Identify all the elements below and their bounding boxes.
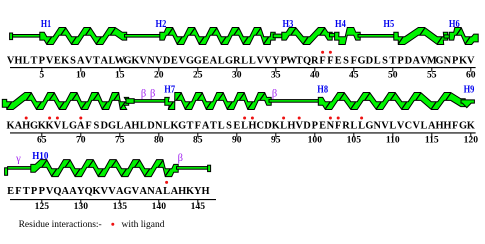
helix label H7: [164, 84, 175, 95]
svg-text:95: 95: [271, 135, 281, 146]
svg-text:50: 50: [388, 69, 398, 80]
ligand dot L106: [360, 117, 363, 120]
helix label H3: [283, 19, 294, 30]
sequence row 3: [7, 186, 210, 197]
svg-text:β: β: [150, 89, 155, 100]
ribbon stub after H6: [126, 99, 134, 104]
helix H8: [318, 93, 465, 110]
svg-text:80: 80: [154, 135, 164, 146]
ligand dot V67: [56, 117, 59, 120]
helix label H10: [32, 151, 48, 162]
svg-text:60: 60: [466, 69, 476, 80]
svg-text:120: 120: [464, 135, 479, 146]
coil residues 77-81: [134, 100, 167, 103]
legend with-ligand text: [122, 220, 165, 230]
svg-text:15: 15: [115, 69, 125, 80]
coil residues 144-146: [177, 167, 209, 170]
ribbon stub after H5: [444, 35, 452, 38]
svg-text:β: β: [141, 89, 146, 100]
helix label H6: [449, 19, 460, 30]
svg-text:135: 135: [113, 201, 128, 212]
ligand dot K66: [48, 117, 51, 120]
svg-text:75: 75: [115, 135, 125, 146]
svg-text:20: 20: [154, 69, 164, 80]
ruler row 2: [10, 133, 478, 146]
coil residues 94-101: [269, 100, 321, 103]
ribbon stub between H3 and H4: [330, 33, 337, 36]
helix H2: [160, 28, 275, 45]
ligand dot F41: [321, 51, 324, 54]
svg-text:145: 145: [191, 201, 206, 212]
svg-text:H8: H8: [317, 84, 328, 95]
svg-text:85: 85: [193, 135, 203, 146]
beta turn symbol at A143: [178, 153, 183, 164]
ligand dot L141: [165, 181, 168, 184]
svg-text:35: 35: [271, 69, 281, 80]
helix label H5: [383, 19, 394, 30]
ribbon stub after H2: [273, 34, 284, 38]
helix H10: [31, 160, 178, 177]
svg-text:55: 55: [427, 69, 437, 80]
beta turn symbol at D79: [150, 89, 155, 100]
svg-text:Residue interactions:-: Residue interactions:-: [19, 220, 102, 230]
sequence row 2: [7, 121, 475, 132]
svg-text:40: 40: [310, 69, 320, 80]
legend text: [19, 220, 102, 230]
ligand dot L96: [282, 117, 285, 120]
svg-text:H10: H10: [32, 151, 48, 162]
svg-text:γ: γ: [15, 153, 21, 164]
svg-text:70: 70: [76, 135, 86, 146]
svg-text:125: 125: [35, 201, 50, 212]
helix H1: [40, 28, 127, 45]
svg-text:EFTPPVQAAYQKVVAGVANALAHKYH: EFTPPVQAAYQKVVAGVANALAHKYH: [7, 186, 210, 197]
coil residues 15-20: [125, 35, 163, 38]
svg-text:25: 25: [193, 69, 203, 80]
helix label H1: [41, 19, 51, 30]
svg-text:β: β: [272, 89, 277, 100]
svg-text:65: 65: [37, 135, 47, 146]
svg-text:110: 110: [386, 135, 400, 146]
svg-text:45: 45: [349, 69, 359, 80]
helix label H9: [464, 84, 475, 95]
ligand dot H63: [25, 117, 28, 120]
helix H6 start (row 1 end): [449, 28, 478, 45]
svg-text:10: 10: [76, 69, 86, 80]
svg-text:H2: H2: [156, 19, 167, 30]
svg-text:H9: H9: [464, 84, 475, 95]
svg-text:KAHGKKVLGAFSDGLAHLDNLKGTFATLSE: KAHGKKVLGAFSDGLAHLDNLKGTFATLSELHCDKLHVDP…: [7, 121, 475, 132]
svg-text:H7: H7: [164, 84, 175, 95]
coil residues 1-5: [13, 35, 43, 38]
helix label H8: [317, 84, 328, 95]
helix H6 continuation (row 2): [2, 93, 128, 110]
svg-text:5: 5: [39, 69, 44, 80]
helix H7: [165, 93, 271, 110]
svg-text:β: β: [178, 153, 183, 164]
helix H8 end wedge: [461, 100, 474, 108]
svg-text:VHLTPVEKSAVTALWGKVNVDEVGGEALGR: VHLTPVEKSAVTALWGKVNVDEVGGEALGRLLVVYPWTQR…: [7, 55, 475, 66]
coil residues 121-124: [8, 167, 34, 170]
svg-text:100: 100: [308, 135, 323, 146]
ligand dot V98: [298, 117, 301, 120]
ligand dot L91: [243, 117, 246, 120]
svg-text:140: 140: [152, 201, 167, 212]
svg-text:H4: H4: [335, 19, 346, 30]
ligand dot H92: [251, 117, 254, 120]
svg-text:with ligand: with ligand: [122, 220, 165, 230]
ligand dot F103: [337, 117, 340, 120]
beta turn symbol at L78: [141, 89, 146, 100]
sequence row 1: [7, 55, 475, 66]
C-terminus bar: [208, 165, 211, 171]
svg-text:H3: H3: [283, 19, 294, 30]
helix H4: [335, 28, 361, 45]
helix H3: [282, 28, 332, 45]
svg-text:115: 115: [425, 135, 439, 146]
helix label H2: [156, 19, 167, 30]
beta turn symbol at K95: [272, 89, 277, 100]
svg-text:130: 130: [74, 201, 89, 212]
svg-text:105: 105: [347, 135, 362, 146]
helix H5: [394, 28, 448, 45]
ligand dot F42: [329, 51, 332, 54]
svg-text:H1: H1: [41, 19, 51, 30]
ruler row 3: [10, 200, 216, 212]
ligand dot A70: [79, 117, 82, 120]
legend ligand dot: [111, 223, 114, 226]
svg-text:90: 90: [232, 135, 242, 146]
N-terminus bar row 3: [5, 168, 8, 176]
N-terminus bar: [10, 33, 13, 40]
ligand dot N102: [329, 117, 332, 120]
gamma turn symbol at V122: [15, 153, 21, 164]
svg-text:30: 30: [232, 69, 242, 80]
helix label H4: [335, 19, 346, 30]
svg-text:H5: H5: [383, 19, 394, 30]
coil residues 46-50: [358, 35, 397, 38]
ruler row 1: [10, 68, 476, 81]
svg-text:H6: H6: [449, 19, 460, 30]
